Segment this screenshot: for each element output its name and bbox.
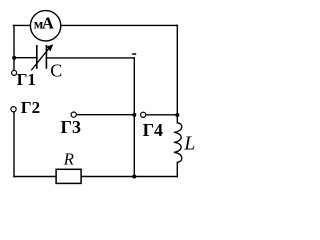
capacitor variable arrow	[31, 44, 53, 70]
milliammeter mA	[30, 11, 60, 41]
svg-text:Г3: Г3	[61, 117, 81, 137]
wire right vertical (top corner to coil)	[176, 25, 178, 122]
wire capacitor branch right to inner corner	[46, 57, 134, 59]
wire G3 to inner branch	[76, 114, 134, 116]
inductor L coil	[174, 123, 182, 163]
wire left lower vertical (G2 down to bottom)	[13, 112, 15, 177]
wire left vertical (top corner to terminal G1)	[13, 25, 15, 70]
capacitor C plates	[37, 45, 47, 69]
node junction dot left (cap branch)	[12, 56, 16, 60]
svg-text:L: L	[183, 132, 195, 154]
wire right vertical below coil	[176, 162, 178, 176]
node junction dot G4/right branch	[175, 113, 179, 117]
svg-text:Г4: Г4	[143, 120, 163, 140]
resistor R box	[56, 169, 81, 183]
terminal G2	[11, 107, 16, 112]
svg-text:С: С	[50, 61, 62, 81]
terminal G1	[12, 70, 17, 75]
wire bottom left horizontal	[14, 176, 56, 178]
wire bottom right horizontal	[81, 176, 177, 178]
wire top-left horizontal	[13, 24, 30, 26]
terminal G4	[141, 112, 146, 117]
svg-text:Г1: Г1	[17, 70, 36, 89]
wire capacitor branch left	[14, 57, 37, 59]
node junction dot G3/inner branch	[132, 113, 136, 117]
wire G4 to right branch	[146, 114, 177, 116]
wire inner vertical branch	[133, 58, 135, 177]
node junction dot bottom/inner branch	[132, 175, 136, 179]
svg-text:R: R	[63, 149, 75, 168]
terminal G3	[71, 112, 76, 117]
wire top horizontal (meter to top-right corner)	[61, 24, 178, 26]
svg-text:А: А	[42, 14, 54, 33]
svg-text:Г2: Г2	[21, 98, 40, 117]
small dash above inner corner	[132, 53, 136, 55]
